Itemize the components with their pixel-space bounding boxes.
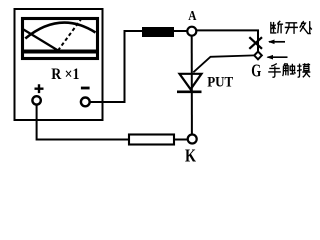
char chu2 (touch) — [283, 63, 296, 76]
svg-text:G: G — [251, 60, 261, 80]
break mark X — [249, 37, 262, 49]
plus sign — [35, 84, 44, 93]
PUT cathode bar — [177, 91, 202, 94]
negative terminal — [81, 98, 90, 107]
wire: node G to PUT gate — [193, 55, 254, 72]
node K terminal circle — [188, 135, 197, 144]
svg-text:PUT: PUT — [207, 75, 233, 91]
wire: node A to break point — [197, 30, 259, 51]
meter needle dashed (deflected) — [58, 19, 82, 51]
wire: negative terminal up to resistor R1 — [90, 31, 142, 102]
multimeter outer case — [15, 9, 103, 120]
wire: anode-cathode vertical A to K — [191, 36, 193, 135]
text shou-chu-mo (hand touch) — [268, 63, 310, 77]
text duan-kai-chu (break point) — [271, 21, 312, 34]
node A terminal circle — [187, 27, 196, 36]
minus sign — [81, 87, 90, 90]
resistor R2 (outline) — [129, 135, 174, 145]
char shou — [268, 64, 281, 78]
char kai — [285, 23, 298, 34]
svg-text:K: K — [185, 146, 196, 165]
wire: R2 to node K — [175, 139, 188, 141]
char chu — [300, 21, 312, 34]
wire: bottom loop from positive terminal to R2 — [37, 105, 128, 140]
meter display frame — [23, 19, 98, 59]
svg-text:A: A — [188, 9, 197, 24]
char duan — [271, 21, 283, 34]
PUT triangle — [180, 74, 202, 90]
meter needle solid — [24, 30, 59, 51]
node G terminal (diamond) — [254, 52, 262, 60]
upper arrow (points to break) — [269, 41, 285, 43]
meter scale arc — [25, 23, 95, 39]
wire: R1 to node A — [174, 30, 187, 32]
resistor R1 (filled) — [142, 27, 174, 37]
positive terminal — [32, 96, 40, 104]
char mo — [297, 63, 310, 77]
lower arrow (points to G) — [268, 56, 288, 58]
svg-text:R ×1: R ×1 — [51, 66, 79, 83]
meter mirror bar — [24, 50, 97, 54]
